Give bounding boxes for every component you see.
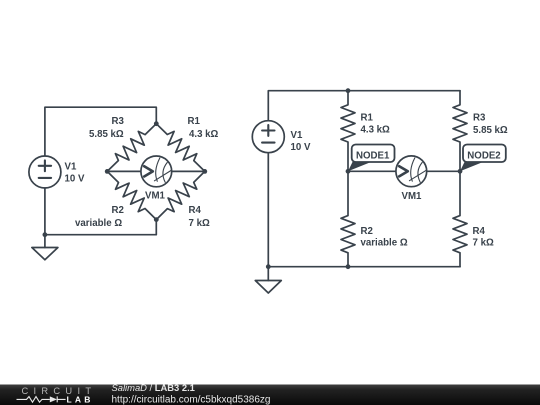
svg-text:R4: R4 <box>189 205 202 216</box>
ground (left) <box>32 235 58 260</box>
junction bottom-left <box>266 264 271 269</box>
wire V1 bottom to bottom junction <box>44 188 46 235</box>
ground (right) <box>255 267 281 293</box>
junction top <box>346 88 351 93</box>
wire V1 bottom to bottom-left junction <box>267 153 269 267</box>
svg-text:variable Ω: variable Ω <box>361 238 408 249</box>
svg-text:VM1: VM1 <box>145 191 166 202</box>
svg-text:R2: R2 <box>361 226 373 237</box>
wire voltmeter to right node <box>172 170 205 172</box>
wire bridge bottom node to bottom junction <box>45 220 156 235</box>
resistor R4 (right circuit) <box>453 171 467 266</box>
resistor R3 (bridge top-left edge) <box>107 124 156 172</box>
wire voltmeter to NODE2 junction <box>427 170 460 172</box>
resistor R1 (bridge top-right edge) <box>156 124 205 172</box>
svg-text:http://circuitlab.com/c5bkxqd5: http://circuitlab.com/c5bkxqd5386zg <box>112 395 271 405</box>
svg-text:4.3 kΩ: 4.3 kΩ <box>361 125 391 136</box>
resistor R4 (bridge bottom-right edge) <box>156 171 205 219</box>
resistor R1 (right circuit) <box>341 91 355 172</box>
svg-text:VM1: VM1 <box>402 191 423 202</box>
node left (bridge) <box>105 169 110 174</box>
node right (bridge) <box>202 169 207 174</box>
svg-text:4.3 kΩ: 4.3 kΩ <box>189 129 219 140</box>
svg-text:LAB: LAB <box>67 395 94 405</box>
svg-text:variable Ω: variable Ω <box>75 218 122 229</box>
wire left node to voltmeter <box>107 170 141 172</box>
resistor R2 (bridge bottom-left edge) <box>107 171 156 219</box>
junction NODE2 <box>458 169 463 174</box>
node bottom (bridge) <box>154 217 159 222</box>
resistor R2 (right circuit) <box>341 171 355 266</box>
svg-text:SalimaD / LAB3 2.1: SalimaD / LAB3 2.1 <box>112 382 195 393</box>
svg-text:10 V: 10 V <box>291 142 311 153</box>
svg-text:NODE1: NODE1 <box>356 150 390 161</box>
svg-text:V1: V1 <box>65 162 77 173</box>
svg-text:R3: R3 <box>473 113 486 124</box>
junction bottom-left <box>43 232 48 237</box>
svg-text:NODE2: NODE2 <box>467 150 500 161</box>
flag NODE1 <box>348 145 395 172</box>
junction NODE1 <box>346 169 351 174</box>
svg-text:R2: R2 <box>112 205 124 216</box>
svg-text:R4: R4 <box>473 226 486 237</box>
wire V1 top to top junction <box>268 91 348 121</box>
voltmeter VM1 (right circuit) <box>396 156 427 187</box>
flag NODE2 <box>460 145 506 172</box>
voltage source V1 (right) <box>252 121 284 153</box>
svg-text:R1: R1 <box>361 113 374 124</box>
voltmeter VM1 (left circuit) <box>141 156 172 187</box>
svg-text:5.85 kΩ: 5.85 kΩ <box>473 125 508 136</box>
wire NODE1 junction to voltmeter <box>348 170 396 172</box>
footer background <box>0 385 540 405</box>
svg-text:5.85 kΩ: 5.85 kΩ <box>89 129 124 140</box>
svg-text:V1: V1 <box>291 130 303 141</box>
resistor R3 (right circuit) <box>453 91 467 172</box>
svg-text:7 kΩ: 7 kΩ <box>189 218 210 229</box>
node top (bridge) <box>154 121 159 126</box>
svg-text:R3: R3 <box>112 116 125 127</box>
svg-text:R1: R1 <box>188 116 201 127</box>
voltage source V1 (left) <box>29 156 61 188</box>
wire top junction to top-right corner <box>348 90 460 92</box>
svg-text:7 kΩ: 7 kΩ <box>473 238 494 249</box>
junction bottom-middle <box>346 264 351 269</box>
wire V1 top to bridge top node <box>45 107 156 156</box>
bottom wire <box>268 266 460 268</box>
svg-text:10 V: 10 V <box>65 174 85 185</box>
logo resistor-diode squiggle <box>17 396 66 402</box>
